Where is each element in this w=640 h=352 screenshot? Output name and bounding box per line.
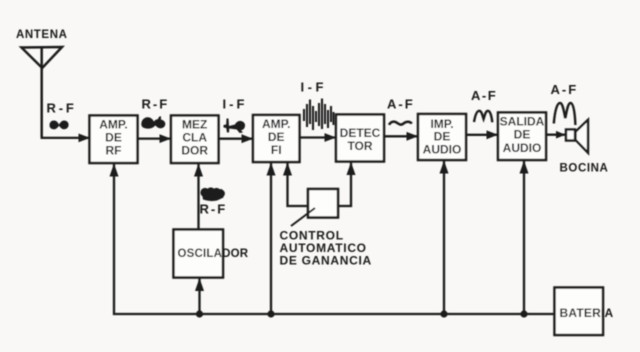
svg-text:I-F: I-F <box>223 97 248 112</box>
arrowhead into AMP DE FI bottom (power) <box>267 163 276 176</box>
block AMP DE RF <box>90 116 138 164</box>
wire DETECTOR to IMP DE AUDIO <box>384 135 417 137</box>
svg-text:DE: DE <box>514 128 531 142</box>
junction dot (oscillator-bus) <box>196 310 203 317</box>
block MEZCLADOR <box>171 116 219 164</box>
svg-text:AMP.: AMP. <box>262 117 290 131</box>
arrowhead into MEZCLADOR bottom <box>194 164 203 177</box>
arrowhead into DETECTOR bottom (AGC) <box>347 162 356 175</box>
svg-text:RF: RF <box>106 144 122 158</box>
svg-text:FI: FI <box>271 143 282 157</box>
svg-text:I-F: I-F <box>301 80 327 95</box>
block SALIDA DE AUDIO <box>498 113 546 161</box>
icon R-F wave 2 <box>141 116 165 128</box>
svg-text:A-F: A-F <box>551 82 579 97</box>
icon I-F wave small <box>224 119 246 134</box>
arrowhead into SALIDA DE AUDIO <box>487 130 499 139</box>
svg-text:R-F: R-F <box>200 202 228 217</box>
arrowhead into IMP DE AUDIO bottom <box>440 161 449 174</box>
svg-text:DETEC: DETEC <box>340 126 381 140</box>
svg-text:DE: DE <box>105 131 122 145</box>
block OSCILADOR <box>174 230 249 278</box>
arrowhead into AMP DE RF <box>79 134 91 143</box>
AGC box <box>308 189 338 218</box>
svg-text:BATERIA: BATERIA <box>560 306 614 320</box>
svg-text:A-F: A-F <box>387 97 415 112</box>
svg-text:TOR: TOR <box>347 139 372 153</box>
wire OSCILADOR to bus <box>198 278 200 315</box>
svg-text:DE: DE <box>434 130 451 144</box>
speaker BOCINA symbol <box>566 120 588 153</box>
junction dot (SALIDA-bus) <box>520 310 527 317</box>
icon A-F large sine wave <box>554 103 576 125</box>
svg-text:AUDIO: AUDIO <box>423 143 462 157</box>
arrowhead into OSCILADOR bottom <box>195 278 204 291</box>
leader line from AGC box to its label <box>291 208 315 226</box>
svg-text:R-F: R-F <box>47 101 77 116</box>
wire AMP DE RF to bus (left end of bus) <box>114 164 555 315</box>
wire SALIDA DE AUDIO to speaker <box>546 134 565 136</box>
block AMP DE FI <box>253 115 300 162</box>
arrowhead into AMP DE RF bottom <box>110 164 119 177</box>
block DETECTOR <box>336 115 384 162</box>
wire SALIDA DE AUDIO to bus <box>523 161 525 315</box>
svg-text:OSCILADOR: OSCILADOR <box>178 248 249 260</box>
wire MEZCLADOR to AMP DE FI <box>219 138 253 140</box>
icon A-F tilde wave <box>389 122 412 125</box>
wire AMP DE RF to MEZCLADOR <box>138 137 171 139</box>
antenna symbol <box>22 47 63 137</box>
arrowhead into IMP DE AUDIO <box>407 132 419 141</box>
wire antenna to AMP DE RF <box>42 136 89 138</box>
svg-text:AMP.: AMP. <box>99 118 127 132</box>
icon A-F sine wave <box>474 111 492 123</box>
label CONTROL AUTOMATICO DE GANANCIA <box>280 229 372 268</box>
svg-text:R-F: R-F <box>142 97 170 112</box>
icon R-F coil on oscillator wire <box>200 187 225 201</box>
arrowhead into speaker <box>556 131 566 139</box>
svg-text:DE GANANCIA: DE GANANCIA <box>280 254 372 268</box>
svg-text:A-F: A-F <box>471 88 497 103</box>
svg-text:DE: DE <box>268 130 285 144</box>
wire AMP DE FI to DETECTOR <box>300 136 336 138</box>
wire IMP DE AUDIO to SALIDA DE AUDIO <box>466 134 497 136</box>
arrowhead into DETECTOR <box>325 133 337 142</box>
block BATERIA <box>555 288 614 336</box>
wire MEZCLADOR to OSCILADOR (vertical) <box>197 163 199 229</box>
arrowhead into SALIDA DE AUDIO bottom <box>520 161 529 174</box>
svg-text:SALIDA: SALIDA <box>500 115 545 129</box>
svg-text:DOR: DOR <box>181 144 208 158</box>
arrowhead into MEZCLADOR <box>160 134 172 143</box>
icon I-F burst waveform <box>304 99 334 131</box>
svg-text:CLA: CLA <box>182 131 207 145</box>
icon R-F wave (antenna) <box>50 120 69 129</box>
svg-text:BOCINA: BOCINA <box>560 163 609 175</box>
junction dot (IMP-bus) <box>440 310 447 317</box>
wire AMP DE FI power line to bus <box>270 162 272 314</box>
arrowhead into AMP DE FI bottom (AGC) <box>283 163 292 176</box>
svg-text:MEZ: MEZ <box>182 118 207 132</box>
wire AGC to AMP DE FI <box>288 163 308 207</box>
wire AGC to DETECTOR <box>339 162 351 206</box>
block IMP DE AUDIO <box>418 114 466 160</box>
wire IMP DE AUDIO to bus <box>443 161 445 315</box>
svg-text:AUDIO: AUDIO <box>503 141 542 155</box>
junction dot (FI-bus) <box>267 310 274 317</box>
arrowhead into AMP DE FI <box>242 134 254 143</box>
svg-text:ANTENA: ANTENA <box>16 29 68 41</box>
